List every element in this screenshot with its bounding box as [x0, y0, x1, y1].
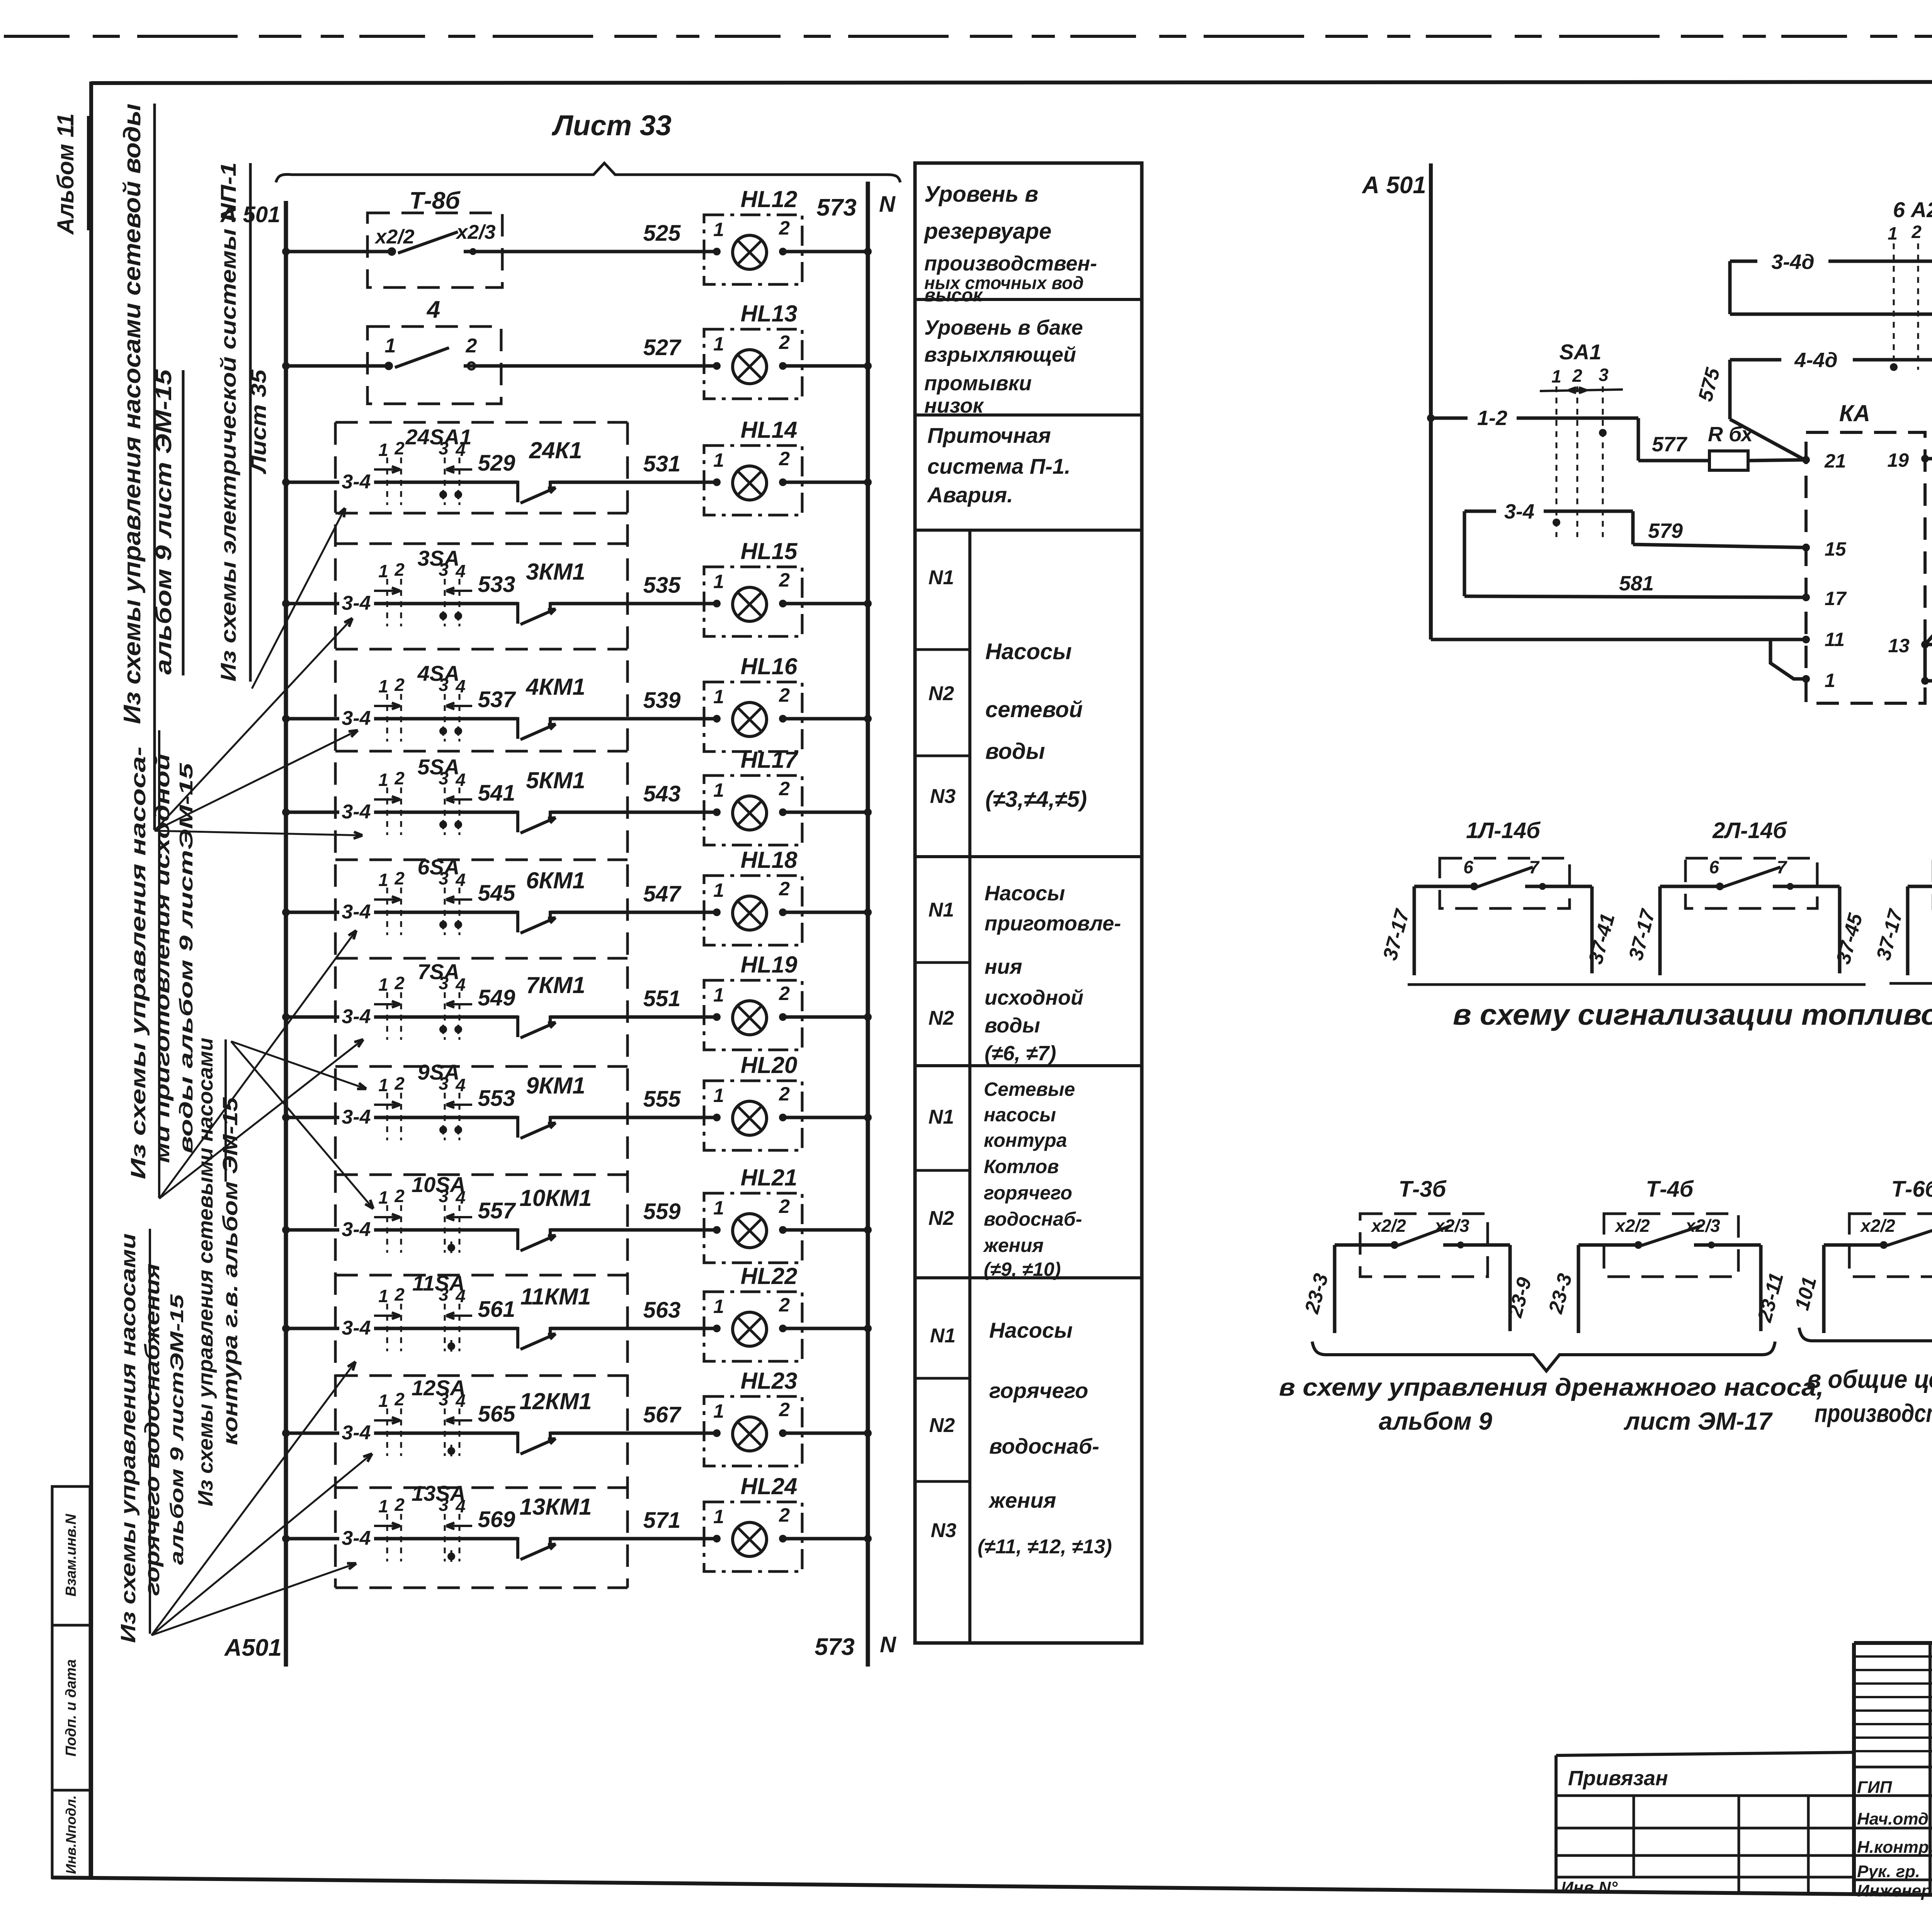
svg-text:воды: воды [985, 1014, 1040, 1037]
wire 575 [1694, 360, 1806, 461]
svg-text:N2: N2 [929, 682, 954, 705]
svg-text:Лист 33: Лист 33 [551, 109, 672, 141]
svg-text:561: 561 [478, 1297, 515, 1322]
switch 10SA [374, 1172, 472, 1253]
svg-text:3: 3 [439, 868, 449, 888]
callout arrows: горячего водоснабжения to rungs 11-13 [151, 1362, 372, 1635]
rung 9 wire 553 from bus A501 [282, 1086, 518, 1128]
bus 573/N (right vertical) [866, 182, 870, 1667]
svg-text:9КМ1: 9КМ1 [526, 1073, 585, 1099]
connector 6А2 [1888, 197, 1932, 371]
contact 11КМ1 [518, 1284, 591, 1349]
svg-text:x2/3: x2/3 [455, 221, 495, 243]
svg-text:555: 555 [643, 1087, 681, 1112]
svg-text:1: 1 [713, 1506, 724, 1527]
lamp HL17 [550, 747, 868, 845]
table group: сетевые насосы контура котлов [929, 1078, 1082, 1280]
svg-text:15: 15 [1825, 538, 1847, 560]
svg-text:2: 2 [394, 868, 405, 888]
svg-text:А501: А501 [224, 1634, 282, 1661]
svg-text:x2/3: x2/3 [1684, 1216, 1720, 1236]
node A501 top label [220, 202, 281, 227]
svg-text:1-2: 1-2 [1477, 406, 1507, 430]
junction right bus rung 8 [864, 1013, 872, 1021]
svg-text:3: 3 [439, 1495, 449, 1515]
svg-text:Из схемы электрической системы: Из схемы электрической системы NП-1 [216, 162, 240, 682]
svg-text:А 501: А 501 [220, 202, 281, 227]
relay KA box [1802, 400, 1929, 703]
junction right bus rung2 [864, 362, 872, 370]
wire 571 and lamp HL24 [643, 1508, 681, 1533]
svg-text:2: 2 [779, 1196, 790, 1217]
svg-text:525: 525 [643, 221, 681, 246]
svg-text:2: 2 [779, 1294, 790, 1316]
left margin label: из схемы управления насосами приготовления исходной воды [127, 730, 197, 1198]
callout arrows: сетевыми насосами контура to rungs 9-10 [231, 1041, 373, 1209]
wire 559 and lamp HL21 [643, 1199, 681, 1224]
svg-text:539: 539 [643, 688, 681, 713]
svg-text:Уровень в баке: Уровень в баке [924, 316, 1083, 339]
svg-text:13КМ1: 13КМ1 [520, 1494, 592, 1520]
wire 579 [1633, 511, 1806, 548]
wire 551 and lamp HL19 [643, 986, 681, 1011]
svg-text:Сетевые: Сетевые [984, 1078, 1075, 1100]
svg-text:10КМ1: 10КМ1 [520, 1185, 592, 1211]
svg-text:527: 527 [643, 335, 682, 360]
svg-text:4: 4 [455, 1075, 466, 1095]
svg-text:3: 3 [439, 675, 449, 695]
svg-text:лист ЭМ-17: лист ЭМ-17 [1624, 1407, 1773, 1435]
svg-text:альбом 9 листЭМ-15: альбом 9 листЭМ-15 [167, 1294, 187, 1565]
svg-text:Приточная: Приточная [927, 423, 1051, 447]
margin boxes Взам.инв Подп.и дата Инв.подл [52, 1486, 90, 1878]
svg-text:1: 1 [713, 571, 724, 592]
svg-text:N: N [880, 1632, 896, 1657]
svg-text:533: 533 [478, 572, 515, 597]
svg-text:2: 2 [779, 448, 790, 469]
wire from pin 13 to bus N [1925, 641, 1932, 648]
contact 3КМ1 [518, 559, 585, 624]
svg-text:HL12: HL12 [741, 186, 798, 212]
svg-text:531: 531 [643, 451, 681, 476]
svg-text:HL13: HL13 [741, 301, 798, 327]
svg-text:547: 547 [643, 881, 682, 906]
rung 2 wire 527 [282, 335, 717, 370]
wire 531 and lamp HL14 [643, 451, 681, 476]
rung 11 wire 561 from bus A501 [282, 1297, 518, 1339]
привязан sub-table [1556, 1752, 1854, 1897]
svg-text:Подп. и дата: Подп. и дата [63, 1659, 79, 1757]
wire 539 and lamp HL16 [643, 688, 681, 713]
svg-text:3-4: 3-4 [342, 1106, 371, 1128]
svg-text:2: 2 [1911, 222, 1922, 242]
svg-text:581: 581 [1619, 572, 1654, 595]
left margin label: из схемы управления насосами сетевой воды альбом 9 лист ЭМ-15 [119, 104, 183, 830]
svg-text:2: 2 [394, 1073, 405, 1094]
svg-text:SA1: SA1 [1560, 340, 1602, 364]
svg-text:x2/2: x2/2 [374, 226, 414, 248]
description table frame [915, 163, 1142, 1643]
svg-text:24К1: 24К1 [529, 437, 582, 463]
wire 583 and bell HA1 [1921, 643, 1932, 685]
svg-text:(≠9, ≠10): (≠9, ≠10) [984, 1259, 1061, 1280]
svg-text:Из схемы управления насосами: Из схемы управления насосами сетевой вод… [119, 104, 146, 724]
caption: в схему сигнализации топливоподачи [1453, 998, 1932, 1031]
svg-text:Нач.отд: Нач.отд [1857, 1810, 1929, 1828]
svg-text:2: 2 [779, 778, 790, 799]
svg-text:567: 567 [643, 1402, 682, 1427]
wire 547 and lamp HL18 [643, 881, 682, 906]
svg-text:x2/2: x2/2 [1859, 1216, 1895, 1236]
svg-text:низок: низок [924, 394, 984, 417]
svg-text:HL16: HL16 [741, 653, 798, 679]
svg-text:1: 1 [378, 561, 388, 581]
contact Т-4б [1544, 1177, 1788, 1333]
switch contact Т-8б [367, 187, 502, 287]
svg-text:горячего: горячего [984, 1182, 1072, 1204]
svg-text:2: 2 [779, 684, 790, 706]
rung 7 wire 545 from bus A501 [282, 881, 518, 923]
svg-text:HL14: HL14 [741, 417, 798, 443]
rung 4 wire 533 from bus A501 [282, 572, 518, 614]
rung 8 wire 549 from bus A501 [282, 985, 518, 1028]
rung 5 wire 537 from bus A501 [282, 687, 518, 730]
svg-text:5КМ1: 5КМ1 [526, 767, 585, 793]
svg-text:1: 1 [378, 975, 388, 995]
svg-text:535: 535 [643, 573, 681, 598]
switch SA1 [1540, 340, 1623, 537]
svg-text:2: 2 [466, 335, 477, 357]
svg-text:3: 3 [439, 768, 449, 788]
svg-text:537: 537 [478, 687, 517, 712]
contact 12КМ1 [518, 1388, 592, 1454]
svg-text:x2/2: x2/2 [1370, 1216, 1406, 1236]
svg-text:промывки: промывки [924, 372, 1032, 395]
lamp HL16 [550, 653, 868, 752]
svg-text:HL21: HL21 [741, 1165, 798, 1190]
svg-text:1: 1 [1551, 366, 1561, 386]
svg-text:жения: жения [988, 1488, 1056, 1512]
svg-text:горячего: горячего [989, 1378, 1088, 1403]
svg-text:2: 2 [394, 1186, 405, 1206]
underline (schemu signalizacii) left segment [1408, 983, 1866, 986]
svg-text:3-4: 3-4 [342, 1218, 371, 1241]
svg-text:569: 569 [478, 1507, 515, 1532]
svg-text:3: 3 [439, 1389, 449, 1409]
svg-text:1: 1 [378, 870, 388, 890]
title block frame [1854, 1643, 1932, 1900]
svg-text:7: 7 [1777, 857, 1787, 877]
svg-text:Инв.N°: Инв.N° [1561, 1878, 1618, 1897]
svg-text:N2: N2 [929, 1007, 954, 1029]
svg-text:Из схемы управления насосами: Из схемы управления насосами [117, 1233, 140, 1643]
wire from pin 19 to pin 13 [1925, 459, 1932, 645]
svg-text:2: 2 [779, 1083, 790, 1105]
svg-text:взрыхляющей: взрыхляющей [924, 343, 1076, 366]
svg-text:2Л-14б: 2Л-14б [1712, 818, 1787, 843]
svg-text:N1: N1 [929, 899, 954, 921]
svg-text:19: 19 [1887, 449, 1909, 471]
svg-text:Насосы: Насосы [989, 1318, 1073, 1342]
svg-text:3-4: 3-4 [342, 1005, 371, 1028]
svg-text:1: 1 [378, 1391, 388, 1411]
junction right bus rung 9 [864, 1114, 872, 1121]
svg-text:1: 1 [378, 676, 388, 696]
svg-text:водоснаб-: водоснаб- [989, 1434, 1099, 1458]
contact 5КМ1 [518, 767, 585, 833]
svg-text:А 501: А 501 [1361, 172, 1426, 199]
svg-text:2: 2 [394, 1495, 405, 1515]
contact 9КМ1 [518, 1073, 585, 1138]
svg-text:3: 3 [439, 438, 449, 458]
svg-text:12КМ1: 12КМ1 [520, 1388, 592, 1414]
svg-text:Инв.Nподл.: Инв.Nподл. [63, 1795, 79, 1874]
svg-text:571: 571 [643, 1508, 681, 1533]
svg-text:1: 1 [1888, 223, 1898, 243]
svg-text:563: 563 [643, 1298, 681, 1323]
svg-text:2: 2 [779, 332, 790, 353]
wire 577 [1638, 433, 1709, 461]
switch 13SA [374, 1481, 472, 1562]
svg-text:исходной: исходной [985, 986, 1083, 1009]
svg-text:6: 6 [1709, 857, 1719, 877]
svg-text:11: 11 [1825, 629, 1845, 650]
svg-text:577: 577 [1652, 433, 1688, 456]
svg-text:573: 573 [815, 1634, 854, 1660]
svg-text:3-4: 3-4 [342, 471, 371, 493]
svg-text:3-4д: 3-4д [1771, 250, 1814, 274]
svg-text:3-4: 3-4 [342, 801, 371, 823]
junction right bus rung 10 [864, 1226, 872, 1234]
svg-text:1: 1 [713, 333, 724, 355]
svg-text:Привязан: Привязан [1568, 1767, 1668, 1790]
left margin label: из схемы управления насосами горячего водоснабжения [117, 1229, 187, 1643]
svg-text:2: 2 [1572, 366, 1582, 386]
svg-text:3: 3 [439, 1073, 449, 1094]
svg-text:Т-6б: Т-6б [1891, 1177, 1932, 1202]
svg-text:насосы: насосы [984, 1104, 1056, 1126]
svg-text:(≠6, ≠7): (≠6, ≠7) [985, 1042, 1056, 1065]
svg-text:3: 3 [439, 973, 449, 993]
svg-text:549: 549 [478, 985, 515, 1010]
rung 1 wire 525 [282, 221, 717, 255]
svg-text:ГИП: ГИП [1857, 1778, 1893, 1797]
svg-text:HL18: HL18 [741, 847, 798, 873]
node 573 top label [816, 194, 856, 221]
wire 3-4д [1730, 250, 1932, 274]
lamp HL12 [550, 186, 868, 284]
svg-text:Т-4б: Т-4б [1646, 1177, 1694, 1202]
svg-text:4-4д: 4-4д [1794, 349, 1837, 372]
svg-text:1: 1 [1825, 670, 1835, 691]
svg-text:1: 1 [378, 770, 388, 790]
lamp HL18 [550, 847, 868, 945]
lamp HL20 [550, 1052, 868, 1150]
callout arrows: исходной воды to rungs 7-8 [159, 930, 363, 1199]
junction right bus rung 11 [864, 1325, 872, 1332]
svg-text:Насосы: Насосы [985, 882, 1065, 905]
svg-text:система П-1.: система П-1. [927, 454, 1070, 478]
svg-text:N3: N3 [931, 1519, 957, 1542]
brace Лист 33 over ladder [276, 109, 900, 182]
svg-text:высок: высок [924, 285, 983, 306]
svg-text:HL15: HL15 [741, 538, 798, 564]
svg-text:4: 4 [455, 870, 466, 890]
svg-text:1: 1 [378, 1075, 388, 1095]
bus A501 (KA circuit) [1361, 163, 1431, 639]
svg-text:557: 557 [478, 1198, 517, 1223]
junction right bus rung1 [864, 248, 872, 255]
svg-text:x2/2: x2/2 [1614, 1216, 1650, 1236]
svg-text:Из схемы управления сетевыми: Из схемы управления сетевыми насосами [194, 1037, 217, 1506]
svg-text:553: 553 [478, 1086, 515, 1111]
svg-text:Уровень в: Уровень в [924, 182, 1038, 207]
svg-text:1: 1 [713, 1400, 724, 1422]
svg-text:3: 3 [439, 560, 449, 580]
dashed enclosure for SA switches [335, 422, 628, 1588]
wire 11 from bus to KA [1431, 639, 1806, 679]
lamp HL23 [550, 1368, 868, 1466]
svg-text:3-4: 3-4 [342, 1527, 371, 1549]
svg-text:21: 21 [1824, 450, 1846, 472]
svg-text:3-4: 3-4 [342, 901, 371, 923]
svg-text:1: 1 [378, 1187, 388, 1207]
switch 3SA [374, 546, 472, 626]
svg-text:4: 4 [455, 561, 466, 581]
junction right bus rung 4 [864, 600, 872, 607]
svg-text:приготовле-: приготовле- [985, 912, 1121, 935]
svg-text:2: 2 [779, 1399, 790, 1420]
junction right bus rung 3 [864, 478, 872, 486]
svg-text:Авария.: Авария. [927, 483, 1013, 507]
svg-text:КА: КА [1839, 400, 1870, 426]
svg-text:резервуаре: резервуаре [923, 219, 1051, 244]
rung 10 wire 557 from bus A501 [282, 1198, 518, 1241]
svg-text:4: 4 [455, 1286, 466, 1306]
table row: уровень в резервуаре [923, 182, 1097, 306]
svg-text:N: N [879, 192, 896, 217]
node N bottom label [880, 1632, 896, 1657]
contact 6КМ1 [518, 867, 585, 933]
svg-text:контура: контура [984, 1129, 1067, 1151]
svg-text:N3: N3 [930, 785, 956, 808]
switch 24SA1 [374, 425, 472, 505]
svg-text:3-4: 3-4 [342, 1317, 371, 1339]
node 573 bottom label [815, 1634, 854, 1660]
svg-text:воды: воды [985, 739, 1045, 764]
svg-text:N1: N1 [930, 1325, 956, 1347]
caption: в общие цепи управления насосов подачи воды [1807, 1365, 1932, 1427]
junction right bus rung 5 [864, 715, 872, 723]
rung 6 wire 541 from bus A501 [282, 781, 518, 823]
svg-text:1: 1 [713, 879, 724, 901]
svg-text:541: 541 [478, 781, 515, 806]
svg-text:3: 3 [439, 1186, 449, 1206]
contact 24К1 [518, 437, 582, 503]
lamp HL22 [550, 1263, 868, 1361]
switch 4SA [374, 661, 472, 742]
svg-text:1: 1 [713, 1085, 724, 1106]
svg-text:N2: N2 [929, 1414, 955, 1437]
lamp HL15 [550, 538, 868, 636]
svg-text:6: 6 [1463, 857, 1473, 877]
table group: насосы горячего водоснабжения [929, 1318, 1112, 1558]
svg-text:в общие цепи управления нас: в общие цепи управления насосов подачи в… [1807, 1365, 1932, 1393]
svg-text:горячего водоснабжения: горячего водоснабжения [141, 1264, 164, 1596]
node A501 bottom label [224, 1634, 282, 1661]
svg-text:2: 2 [779, 217, 790, 239]
svg-text:производственных сточных вод,: производственных сточных вод, альбом 9 л… [1815, 1399, 1932, 1427]
svg-text:Т-3б: Т-3б [1399, 1177, 1447, 1202]
svg-text:(≠11, ≠12, ≠13): (≠11, ≠12, ≠13) [978, 1536, 1112, 1558]
switch 12SA [374, 1376, 472, 1456]
svg-text:551: 551 [643, 986, 681, 1011]
svg-text:водоснаб-: водоснаб- [984, 1208, 1082, 1230]
left margin label: Альбом 11 [53, 113, 88, 235]
contact 7КМ1 [518, 972, 585, 1038]
switch 11SA [374, 1271, 472, 1352]
wire 581 [1464, 572, 1806, 597]
svg-text:559: 559 [643, 1199, 681, 1224]
svg-text:4: 4 [455, 1187, 466, 1207]
title block: names [1857, 1777, 1932, 1900]
svg-text:Котлов: Котлов [984, 1156, 1059, 1177]
svg-text:1: 1 [713, 1197, 724, 1219]
svg-text:6КМ1: 6КМ1 [526, 867, 585, 893]
svg-text:529: 529 [478, 451, 515, 476]
svg-text:3-4: 3-4 [342, 1422, 371, 1444]
left margin label: из схемы управления сетевыми насосами контура г.в. [194, 1037, 242, 1506]
switch 6SA [374, 855, 472, 935]
callout arrows: сетевой воды to rungs 4-6 [155, 618, 362, 838]
connecting loop wire [1730, 261, 1932, 318]
svg-text:Н.контр.: Н.контр. [1857, 1838, 1932, 1857]
torn top edge dashed line [4, 35, 1932, 38]
svg-text:N1: N1 [929, 1106, 954, 1128]
junction right bus rung 12 [864, 1429, 872, 1437]
svg-text:Рук. гр.: Рук. гр. [1857, 1862, 1920, 1881]
svg-text:7КМ1: 7КМ1 [526, 972, 585, 998]
svg-text:11КМ1: 11КМ1 [520, 1284, 591, 1310]
svg-text:543: 543 [643, 781, 681, 806]
svg-text:R бх: R бх [1708, 423, 1753, 446]
svg-text:Инженер: Инженер [1857, 1881, 1932, 1900]
wire 567 and lamp HL23 [643, 1402, 682, 1427]
svg-text:579: 579 [1648, 519, 1683, 543]
switch 5SA [374, 755, 472, 835]
caption: в схему управления дренажного насоса [1279, 1373, 1824, 1435]
bus A501 (left vertical) [284, 201, 288, 1667]
svg-text:1: 1 [713, 984, 724, 1006]
svg-text:HL22: HL22 [741, 1263, 798, 1289]
svg-text:4КМ1: 4КМ1 [526, 674, 585, 700]
svg-text:565: 565 [478, 1401, 516, 1427]
junction right bus rung 7 [864, 908, 872, 916]
svg-text:3: 3 [439, 1284, 449, 1304]
svg-text:2: 2 [394, 1389, 405, 1409]
brace under Т-3б Т-4б [1312, 1342, 1775, 1371]
contact 1Л-14б [1379, 818, 1619, 975]
svg-text:2: 2 [394, 560, 405, 580]
svg-text:Из схемы управления насоса-: Из схемы управления насоса- [127, 747, 150, 1179]
svg-text:1: 1 [713, 219, 724, 240]
svg-text:жения: жения [983, 1235, 1044, 1256]
brace under Т-6б К1 Т-7б [1799, 1328, 1932, 1356]
wire 3-4 with SA1 [1464, 500, 1633, 596]
svg-text:альбом 9: альбом 9 [1379, 1407, 1492, 1435]
svg-text:7: 7 [1529, 857, 1540, 877]
lamp HL14 [550, 417, 868, 515]
